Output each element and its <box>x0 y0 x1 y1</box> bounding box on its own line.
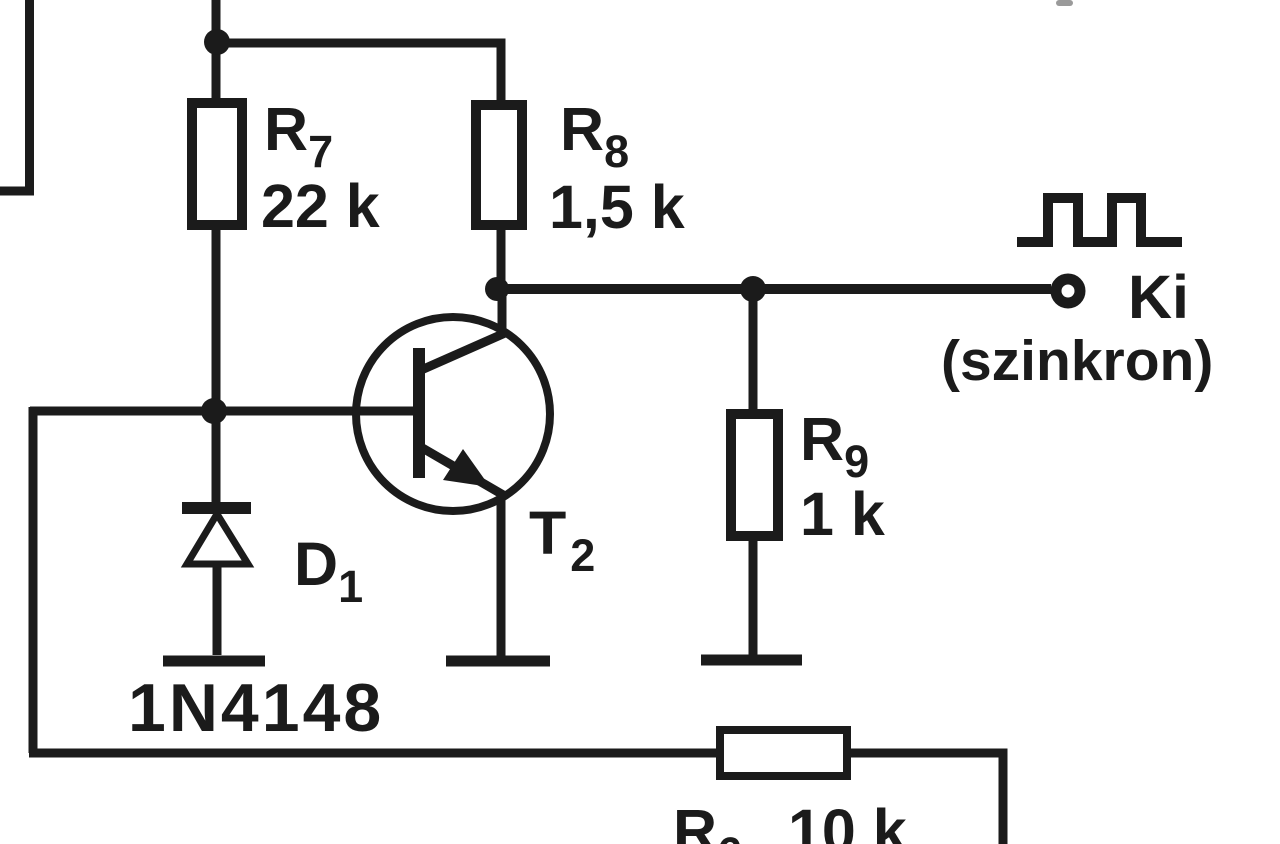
wire emitter down to ground <box>497 494 506 656</box>
resistor R8 <box>476 105 522 225</box>
wire main vertical supply into R7 <box>212 0 221 101</box>
diode D1 cathode bar <box>182 502 251 514</box>
transistor T2 emitter lead <box>419 446 505 496</box>
node junction dot at R9 <box>740 276 766 302</box>
node junction dot at supply branch <box>204 29 230 55</box>
diode D1 triangle <box>187 514 248 564</box>
wire R9 top <box>749 289 758 414</box>
svg-text:Ki: Ki <box>1128 263 1189 331</box>
svg-text:1 k: 1 k <box>800 480 885 548</box>
svg-text:1,5 k: 1,5 k <box>549 173 685 241</box>
transistor T2 base bar <box>413 348 425 478</box>
ground D1 <box>163 656 265 667</box>
terminal Ki open circle <box>1056 279 1080 303</box>
resistor R6 <box>720 730 847 776</box>
scan smudge top right <box>1056 0 1073 6</box>
diode D1 cathode wire <box>212 411 221 503</box>
wire R6 right to bottom edge <box>847 753 1003 844</box>
resistor R9 <box>731 414 778 536</box>
wire supply branch over to R8 <box>217 43 501 103</box>
wire R7 bottom to base junction <box>212 225 221 411</box>
svg-text:22 k: 22 k <box>261 172 380 240</box>
svg-text:1N4148: 1N4148 <box>128 670 384 746</box>
wire base horizontal <box>30 407 414 416</box>
ground T2 emitter <box>446 656 550 667</box>
transistor T2 emitter arrow <box>443 449 490 487</box>
svg-text:10 k: 10 k <box>788 797 907 844</box>
wire collector vertical <box>498 285 507 336</box>
square wave symbol <box>1017 198 1182 242</box>
wire collector node to output terminal <box>497 284 1051 294</box>
wire R8 bottom to collector node <box>497 225 506 289</box>
wire bottom rail to R6 <box>29 749 720 758</box>
resistor R7 <box>192 103 242 225</box>
wire top-left corner stub <box>0 0 30 191</box>
wire R9 bottom to ground <box>749 536 758 655</box>
transistor T2 circle <box>356 317 550 511</box>
ground R9 <box>701 655 802 666</box>
node collector junction dot <box>485 277 509 301</box>
transistor T2 collector lead <box>419 333 505 371</box>
wire left vertical down to bottom rail <box>29 407 38 753</box>
wire D1 anode to ground <box>213 564 222 655</box>
node junction dot base/diode <box>201 398 227 424</box>
svg-text:(szinkron): (szinkron) <box>941 329 1213 393</box>
